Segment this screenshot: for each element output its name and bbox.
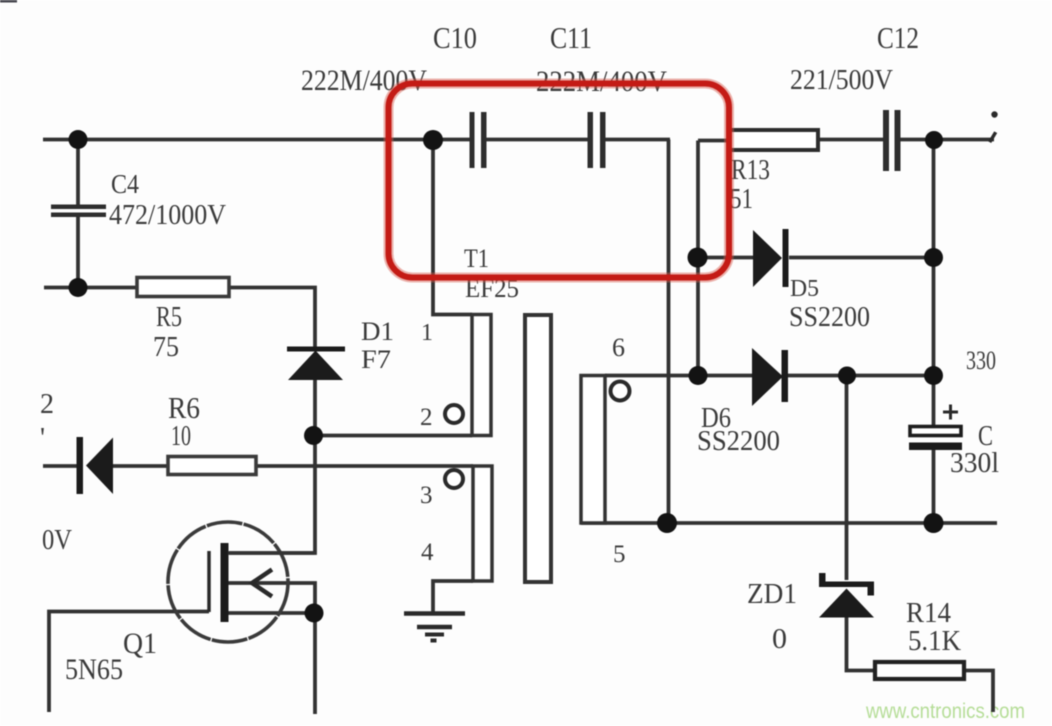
svg-text:330l: 330l <box>950 448 999 479</box>
transformer T1 secondary winding <box>581 376 605 524</box>
svg-text:R13: R13 <box>731 154 770 186</box>
transformer T1 primary winding lower <box>473 466 492 581</box>
transistor Q1 MOSFET circle <box>168 522 288 642</box>
wire source down to edge <box>313 613 317 714</box>
Q1 drain lead <box>228 551 315 555</box>
diode D6 <box>752 348 788 406</box>
wire pin4 to ground <box>433 581 473 613</box>
resistor R5 <box>137 278 229 297</box>
wire vertical R13/D5/pin6 node <box>696 141 700 376</box>
resistor R13 <box>729 130 818 150</box>
wire R14 right lead down <box>964 671 993 713</box>
corner artifact mark <box>0 0 17 3</box>
wire ZD1 anode to R14 <box>847 617 876 671</box>
electrolytic capacitor C (output) <box>909 405 962 451</box>
wire D1 cathode down to drain corner <box>229 380 315 553</box>
wire diode to R6 <box>113 464 168 468</box>
svg-text:R6: R6 <box>168 390 200 425</box>
wire R13 left lead <box>698 139 730 143</box>
wire D5 anode lead <box>698 256 755 260</box>
wire R13 to C12 <box>818 138 883 142</box>
wire D5 cathode lead <box>789 256 934 260</box>
svg-text:6: 6 <box>612 333 625 362</box>
svg-text:0V: 0V <box>42 525 72 556</box>
svg-text:': ' <box>40 423 45 454</box>
resistor R6 <box>168 457 256 475</box>
wire left lower to R5 <box>44 286 137 290</box>
zener ZD1 <box>819 573 874 618</box>
transformer T1 core <box>525 315 551 582</box>
svg-text:221/500V: 221/500V <box>790 65 893 96</box>
capacitor C10 <box>470 112 487 168</box>
svg-text:10: 10 <box>171 421 191 452</box>
wire R6 to transformer pin3 <box>256 464 473 468</box>
svg-text:D1: D1 <box>361 317 394 346</box>
svg-text:0: 0 <box>772 623 787 655</box>
wire pin2 from D1 node <box>313 434 472 438</box>
wire C12 to output <box>900 138 994 142</box>
wire MOSFET body line <box>228 583 315 613</box>
wire C11 to corner <box>604 138 670 142</box>
svg-text:330: 330 <box>966 346 996 375</box>
ground symbol <box>404 614 465 641</box>
svg-text:5: 5 <box>613 541 626 568</box>
svg-text:www.cntronics.com: www.cntronics.com <box>865 700 1025 723</box>
svg-text:C11: C11 <box>550 20 592 55</box>
Q1 channel bar <box>221 543 229 622</box>
junction node dots <box>69 130 88 149</box>
svg-text:C12: C12 <box>877 20 919 55</box>
capacitor C12 <box>883 110 901 171</box>
svg-text:4: 4 <box>421 539 434 566</box>
capacitor C4 <box>51 205 106 218</box>
wire MOSFET source lead <box>228 611 315 615</box>
wire cap bottom to rail <box>932 449 936 523</box>
svg-text:2: 2 <box>420 404 433 431</box>
svg-text:D5: D5 <box>790 276 819 302</box>
diode D1 <box>287 347 345 381</box>
wire D6 cathode lead <box>788 374 934 378</box>
svg-text:75: 75 <box>153 331 179 363</box>
wire top main left <box>43 138 471 142</box>
Q1 body arrow <box>252 570 272 597</box>
svg-text:F7: F7 <box>361 345 391 374</box>
Q1 gate bar <box>207 551 211 612</box>
svg-text:C4: C4 <box>111 169 139 199</box>
svg-text:2: 2 <box>40 389 54 420</box>
capacitor C11 <box>588 112 606 168</box>
wire secondary pin6 to D6 <box>605 374 753 378</box>
svg-text:ZD1: ZD1 <box>747 578 797 610</box>
wire C4 bottom lead <box>76 217 80 287</box>
wire bottom output rail <box>581 521 997 525</box>
svg-text:C10: C10 <box>433 20 477 55</box>
svg-text:Q1: Q1 <box>123 627 157 660</box>
wire R5 to corner and down to D1 <box>229 288 315 348</box>
polarity dot pin2 <box>445 405 463 423</box>
resistor R14 <box>875 662 964 679</box>
output terminal mark top right <box>988 111 998 143</box>
diode D2 (left input diode) <box>77 437 114 494</box>
svg-text:SS2200: SS2200 <box>789 302 870 333</box>
wire ZD1 cathode branch <box>845 376 849 581</box>
wire vertical C11 output down to bottom rail <box>667 140 671 524</box>
svg-text:R5: R5 <box>156 301 182 333</box>
svg-text:T1: T1 <box>464 244 489 273</box>
svg-text:472/1000V: 472/1000V <box>109 199 226 231</box>
wire C10-C11 <box>485 138 589 142</box>
wire left diode anode lead <box>43 464 78 468</box>
wire C4 top lead <box>76 140 80 206</box>
svg-text:1: 1 <box>421 320 433 346</box>
diode D5 <box>753 229 789 287</box>
svg-text:5.1K: 5.1K <box>908 625 961 657</box>
svg-text:3: 3 <box>420 482 433 509</box>
svg-text:SS2200: SS2200 <box>697 426 780 457</box>
wire pin1 from top node <box>433 140 472 315</box>
red highlight rounded rectangle <box>389 84 730 278</box>
svg-text:5N65: 5N65 <box>65 653 123 686</box>
polarity dot pin6 <box>611 382 630 401</box>
wire vertical right bus C12 node down to cap <box>932 140 936 428</box>
wire MOSFET gate lead <box>49 612 209 713</box>
polarity dot pin3 <box>445 470 463 488</box>
transformer T1 primary winding upper <box>472 315 491 436</box>
